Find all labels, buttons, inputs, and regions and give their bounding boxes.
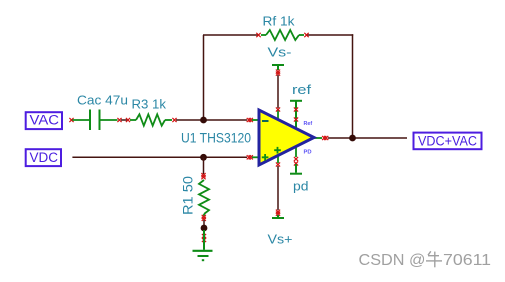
svg-text:Rf 1k: Rf 1k: [263, 13, 296, 28]
svg-text:VDC: VDC: [30, 150, 59, 165]
wire: node B down to R1: [203, 157, 205, 174]
pin: pd stub: [295, 146, 297, 157]
svg-text:VDC+VAC: VDC+VAC: [418, 134, 477, 149]
svg-text:R3 1k: R3 1k: [132, 97, 167, 112]
power port Vs+ (bar symbol): [272, 215, 284, 218]
pin-x: R1 top (double): [201, 173, 205, 179]
svg-text:Vs+: Vs+: [268, 232, 293, 247]
pin-x: Vs- pin top: [276, 107, 280, 111]
power port ref (bar symbol): [290, 101, 302, 128]
svg-text:pd: pd: [293, 179, 309, 194]
junction node C (R1/ground): [201, 225, 208, 232]
pin-x: Rf left pin: [256, 33, 260, 37]
marker: positive supply plus: [274, 147, 281, 154]
wire: R1 to ground stub: [203, 220, 205, 225]
pin: inverting input stub: [252, 119, 259, 121]
pin-x: below Vs- bar (double): [276, 70, 280, 76]
pin-x: R3 right pin: [172, 118, 176, 122]
svg-text:ref: ref: [292, 82, 311, 97]
svg-text:Cac 47u: Cac 47u: [77, 93, 128, 108]
pin-x: ref pin (two marks): [294, 107, 298, 121]
pin: Vs+ supply stub: [277, 155, 279, 163]
wire: feedback right vertical (top to output node): [352, 34, 354, 138]
pin-x: above Vs+ bar (double): [276, 210, 280, 216]
pin-x: inverting input (double): [247, 118, 253, 122]
svg-text:Ref: Ref: [304, 121, 313, 127]
pin-x: Vs+ pin: [276, 162, 280, 166]
wire: output to VDC+VAC: [328, 137, 407, 139]
resistor R3 1k: [130, 114, 172, 125]
svg-text:VAC: VAC: [30, 113, 60, 128]
pin-x: pd pin (double): [294, 157, 298, 166]
marker: non-inverting input plus: [262, 154, 269, 161]
wire: VDC to non-inverting input: [72, 156, 247, 158]
pin-x: cap right pin: [117, 118, 121, 122]
junction node A (fb/input): [200, 117, 207, 124]
resistor R1 50 (vertical): [199, 180, 209, 216]
pin-x: VAC wire start: [69, 118, 73, 122]
power port Vs- (bar symbol): [272, 65, 284, 70]
node VAC terminal box: [26, 112, 62, 129]
svg-text:R1 50: R1 50: [181, 176, 196, 215]
svg-text:70611: 70611: [443, 252, 491, 269]
pin-x: ground pin (double): [202, 234, 206, 242]
wire: feedback left vertical (node A to top): [203, 35, 205, 120]
ground: [193, 230, 213, 260]
power port pd (bar symbol): [290, 164, 302, 174]
wire: Vs- to op-amp supply pin: [277, 75, 279, 108]
node VDC+VAC terminal box: [414, 133, 482, 150]
pin: non-inverting input stub: [252, 156, 259, 158]
wire: Vs+ pin down to port: [277, 166, 279, 210]
pin-x: R1 bottom (double): [202, 215, 206, 221]
watermark: CSDN @牛70611: [359, 252, 492, 269]
node VDC terminal box: [26, 149, 61, 166]
pin-x: R3 left pin: [126, 118, 130, 122]
svg-text:U1 THS3120: U1 THS3120: [181, 131, 251, 146]
pin Vs- of U1 (green stub): [277, 109, 279, 120]
watermark glyph: 牛: [426, 251, 442, 267]
svg-text:CSDN @: CSDN @: [359, 252, 426, 269]
op-amp U1 THS3120 (triangle): [259, 110, 314, 165]
svg-text:Vs-: Vs-: [268, 45, 292, 60]
pin-x: non-inverting input (double): [247, 155, 253, 159]
junction node B (VDC/R1): [200, 154, 207, 161]
svg-text:PD: PD: [304, 149, 312, 155]
wire: cap to R3: [121, 119, 127, 121]
pin: output stub: [313, 137, 322, 139]
capacitor Cac 47u: [72, 110, 117, 131]
pin-x: output pin (double): [322, 136, 328, 140]
pin-x: Rf right pin: [304, 33, 308, 37]
junction node OUT: [349, 135, 356, 142]
resistor Rf 1k: [261, 30, 304, 40]
wire: feedback top right segment: [307, 34, 354, 36]
wire: feedback top left segment: [203, 34, 259, 36]
marker: inverting input minus: [262, 120, 269, 122]
wire: R3 to inverting input: [176, 119, 247, 121]
